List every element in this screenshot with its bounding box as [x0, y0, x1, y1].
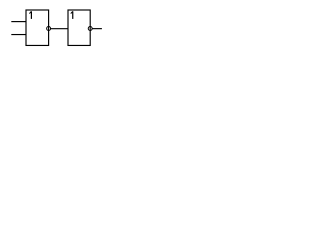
wire input B (bottom input of gate U1): [11, 34, 26, 36]
label "1" of U2: [72, 11, 74, 19]
wire output: [92, 28, 102, 30]
label "1" of U1: [30, 11, 32, 19]
inversion bubble of U1: [47, 27, 51, 31]
gate U1 (IEC box, NOR: "1" with inversion bubble): [26, 10, 49, 45]
wire from U1 output to U2 input: [51, 28, 68, 30]
gate U2 (IEC box, inverter: "1" with inversion bubble): [68, 10, 90, 45]
wire input A (top input of gate U1): [11, 21, 26, 23]
inversion bubble of U2: [88, 27, 92, 31]
